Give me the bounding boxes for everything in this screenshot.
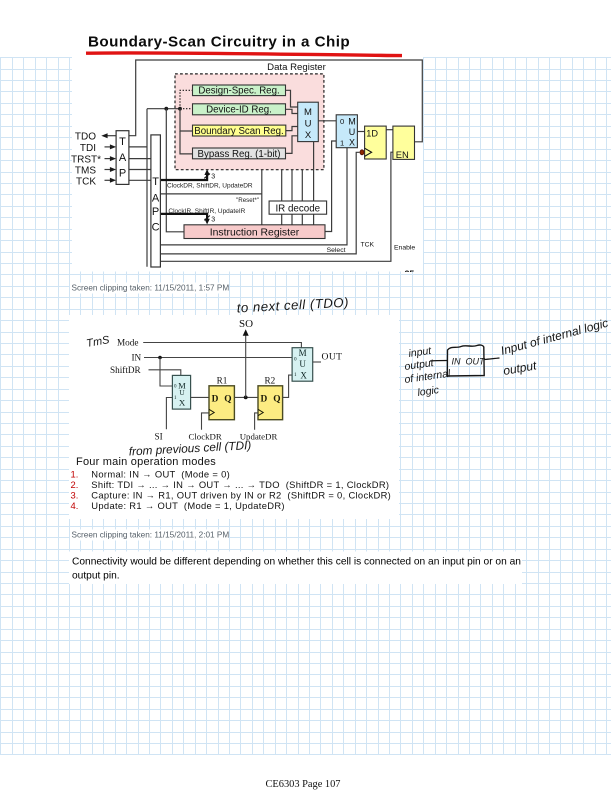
block TAP	[116, 131, 129, 185]
svg-text:Q: Q	[224, 394, 231, 404]
wire IN branch to cell mux	[160, 358, 172, 387]
svg-text:4.: 4.	[71, 500, 79, 511]
mux U1 (DR mux)	[298, 102, 319, 141]
wire Mode line	[143, 343, 301, 348]
wire TDI to Instruction Register	[166, 109, 184, 232]
svg-text:Instruction Register: Instruction Register	[210, 227, 300, 238]
box IR decode	[269, 201, 327, 214]
mux U2 (DR/IR mux)	[336, 115, 357, 148]
svg-text:"Reset*": "Reset*"	[236, 197, 259, 204]
handwritten connector line left	[430, 360, 447, 363]
svg-text:M: M	[304, 107, 312, 118]
svg-text:U: U	[305, 119, 312, 130]
block TAPC	[151, 135, 161, 267]
bus slash 3 marker IR	[204, 216, 210, 221]
svg-text:ShiftDR: ShiftDR	[110, 365, 142, 375]
wire shift path dashedbox to Instruction Register	[261, 170, 263, 225]
svg-text:C: C	[152, 222, 160, 234]
svg-text:TMS: TMS	[75, 166, 96, 177]
wire Enable line bottom	[160, 152, 393, 261]
wire R2 Q to out mux input 1	[283, 375, 293, 397]
wire bus down to Bypass Reg	[180, 131, 193, 154]
wire SI input	[166, 398, 172, 430]
wire Design-Spec to MUX	[286, 90, 298, 107]
svg-text:0: 0	[294, 356, 297, 362]
wire TMS input with arrow	[105, 169, 111, 171]
wire IN line	[144, 357, 292, 359]
svg-text:Screen clipping taken: 11/15/2: Screen clipping taken: 11/15/2011, 1:57 …	[72, 284, 230, 293]
wire TAP to TDI riser	[129, 146, 147, 148]
svg-text:Connectivity would be differen: Connectivity would be different dependin…	[72, 557, 521, 568]
svg-text:D: D	[212, 394, 219, 404]
wire ClockDR to R1 clock	[202, 413, 210, 430]
svg-text:Bypass Reg. (1-bit): Bypass Reg. (1-bit)	[198, 149, 281, 160]
svg-text:1: 1	[294, 372, 297, 378]
wire TRST* input with arrow	[105, 158, 111, 160]
wire OUT	[313, 361, 321, 363]
svg-text:1D: 1D	[366, 128, 378, 138]
text strip: connectivity paragraph	[69, 552, 522, 585]
svg-text:SI: SI	[155, 431, 163, 441]
svg-text:1: 1	[340, 138, 344, 147]
wire TAP to TAPC (TRST*)	[129, 158, 151, 160]
wire TCK input with arrow	[105, 179, 111, 181]
label 85 (clipped slide number)	[405, 269, 415, 279]
clock inversion bubble	[360, 150, 364, 155]
svg-text:P: P	[119, 168, 126, 180]
bus ClockIR,ShiftIR,UpdateIR (thick, arrow down)	[160, 214, 207, 221]
node SO junction	[244, 396, 248, 400]
svg-text:Data Register: Data Register	[267, 62, 326, 73]
svg-text:3: 3	[211, 174, 215, 181]
svg-text:TDO: TDO	[75, 132, 96, 143]
node IN junction	[158, 356, 162, 360]
buffer EN	[393, 126, 415, 159]
node junction dot B	[178, 107, 182, 111]
register Design-Spec. Reg.	[193, 85, 286, 96]
wire R1 Q to R2 D	[234, 396, 258, 398]
svg-text:R2: R2	[265, 376, 276, 386]
svg-text:U: U	[179, 389, 185, 397]
handwritten note: input/output of internal logic (left block)	[404, 345, 452, 399]
svg-text:TRST*: TRST*	[71, 154, 101, 165]
wire TCK clock line bottom	[160, 152, 359, 254]
bus ClockDR,ShiftDR,UpdateDR (thick, arrow up)	[160, 173, 207, 181]
svg-text:Device-ID Reg.: Device-ID Reg.	[206, 105, 272, 116]
svg-text:OUT: OUT	[322, 352, 343, 363]
wire ShiftDR to mux select	[149, 370, 181, 376]
wire MUX1 select from IR decode	[313, 142, 315, 201]
mux input (left)	[172, 375, 190, 409]
svg-text:IN: IN	[452, 357, 462, 367]
svg-text:1.: 1.	[71, 469, 79, 480]
svg-text:Normal: IN → OUT (Mode = 0): Normal: IN → OUT (Mode = 0)	[91, 469, 230, 480]
register Boundary Scan Reg.	[193, 125, 286, 136]
svg-text:M: M	[348, 117, 356, 127]
svg-text:T: T	[152, 176, 159, 188]
dashed Data Register group box	[175, 74, 324, 170]
svg-text:IN: IN	[132, 353, 142, 363]
svg-text:Q: Q	[273, 394, 280, 404]
svg-text:3.: 3.	[71, 490, 79, 501]
svg-text:Boundary Scan Reg.: Boundary Scan Reg.	[194, 126, 283, 137]
svg-text:IR decode: IR decode	[275, 203, 320, 214]
wire mux out to R1 D	[191, 396, 209, 398]
svg-text:ClockDR, ShiftDR, UpdateDR: ClockDR, ShiftDR, UpdateDR	[167, 183, 253, 190]
svg-text:0: 0	[340, 117, 344, 126]
svg-text:OUT: OUT	[466, 357, 487, 367]
wire Device-ID to MUX	[286, 109, 298, 113]
wire dotted up to Design-Spec Reg	[180, 90, 193, 108]
wire TDO output with arrow	[107, 135, 117, 137]
wire dotted to Device-ID Reg	[180, 108, 193, 110]
wire IR output to MUX2 input 1	[325, 141, 336, 232]
screen clipping 1 white background	[72, 56, 423, 272]
wire FF to EN	[386, 129, 393, 131]
svg-text:M: M	[299, 348, 307, 358]
text strip: screen clipping 1:57 caption	[70, 283, 228, 294]
wire Boundary Scan to MUX	[286, 127, 298, 131]
flip-flop R1	[209, 386, 234, 420]
svg-text:Boundary-Scan Circuitry in a C: Boundary-Scan Circuitry in a Chip	[88, 34, 350, 51]
clock triangle R2	[258, 409, 263, 415]
svg-text:A: A	[119, 152, 127, 164]
register Bypass Reg. (1-bit)	[193, 148, 286, 159]
svg-text:3: 3	[211, 217, 215, 224]
svg-text:Screen clipping taken: 11/15/2: Screen clipping taken: 11/15/2011, 2:01 …	[72, 531, 230, 540]
svg-text:Select: Select	[327, 247, 346, 254]
svg-text:Four main operation modes: Four main operation modes	[76, 456, 216, 468]
box Instruction Register	[184, 225, 325, 239]
wire TAP to TAPC (TCK)	[129, 179, 151, 181]
register Device-ID Reg.	[193, 104, 286, 115]
mux output (right)	[292, 348, 313, 382]
svg-text:Design-Spec. Reg.: Design-Spec. Reg.	[198, 86, 279, 97]
svg-text:Mode: Mode	[117, 337, 138, 347]
wire Bypass to MUX	[286, 136, 298, 154]
clock triangle on 1D	[365, 148, 372, 156]
node junction dot A	[164, 107, 168, 111]
svg-text:EN: EN	[396, 149, 409, 160]
svg-text:output pin.: output pin.	[72, 570, 120, 581]
svg-text:P: P	[152, 206, 159, 218]
svg-text:Shift: TDI → ... → IN → OUT →: Shift: TDI → ... → IN → OUT → ... → TDO …	[91, 479, 389, 490]
handwritten cell box	[447, 345, 484, 376]
svg-text:U: U	[349, 127, 356, 137]
svg-text:TDI: TDI	[80, 143, 96, 154]
svg-text:R1: R1	[217, 376, 228, 386]
wire bus down to Boundary Scan Reg	[180, 109, 193, 131]
text strip: screen clipping 2:01 caption	[70, 530, 228, 541]
svg-text:X: X	[349, 138, 355, 148]
wire UpdateDR to R2 clock	[255, 413, 258, 430]
svg-text:X: X	[300, 370, 307, 380]
svg-text:X: X	[305, 130, 312, 141]
svg-text:SO: SO	[239, 318, 253, 330]
svg-text:A: A	[152, 193, 160, 205]
wire MUX1 output	[318, 120, 336, 122]
svg-text:Capture: IN → R1, OUT driven b: Capture: IN → R1, OUT driven by IN or R2…	[91, 490, 391, 501]
screen clipping 2 white background	[69, 315, 399, 519]
wire TDI riser (vertical at left of TAPC)	[146, 109, 148, 267]
clock triangle R1	[209, 409, 214, 415]
wire TDO feedback loop (EN output to TAP)	[129, 60, 422, 142]
wire MUX2 output to FF	[357, 131, 364, 133]
flip-flop 1D	[365, 126, 387, 159]
wire TDI horizontal distribution	[147, 108, 180, 110]
wire SO up with arrow	[245, 334, 247, 398]
svg-text:TCK: TCK	[76, 176, 96, 187]
svg-text:Enable: Enable	[394, 244, 415, 251]
svg-text:D: D	[261, 394, 268, 404]
svg-text:T: T	[119, 136, 126, 148]
svg-text:TCK: TCK	[361, 242, 375, 249]
title red underline (ink)	[86, 53, 402, 56]
bus slash 3 marker DR	[204, 174, 210, 179]
svg-text:CE6303 Page 107: CE6303 Page 107	[265, 779, 340, 790]
svg-text:2.: 2.	[71, 479, 79, 490]
wire IR decode enables to registers (3 lines)	[282, 170, 303, 201]
wire select line from TAPC bottom	[160, 148, 347, 245]
handwritten connector line right	[485, 358, 500, 360]
wire TAP to TAPC (TMS)	[129, 169, 151, 171]
wire Reset*	[160, 193, 261, 195]
svg-text:X: X	[179, 397, 186, 407]
svg-text:Update: R1 → OUT (Mode = 1, U: Update: R1 → OUT (Mode = 1, UpdateDR)	[91, 500, 285, 511]
svg-text:U: U	[299, 359, 306, 369]
flip-flop R2	[258, 386, 283, 420]
wire TDI input with arrow	[105, 146, 111, 148]
